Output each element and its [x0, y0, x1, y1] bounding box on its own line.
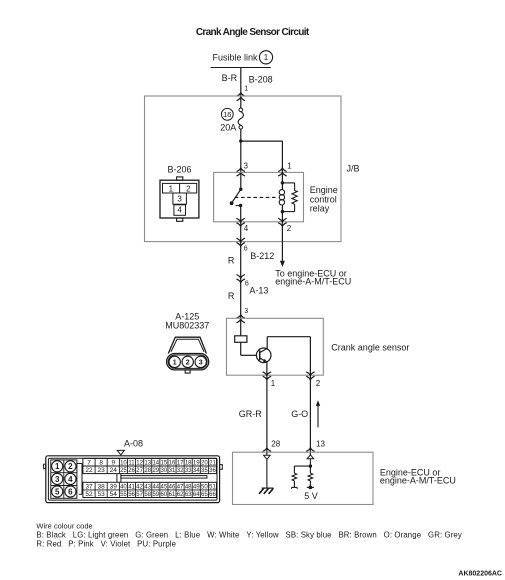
svg-text:34: 34	[193, 468, 200, 474]
svg-text:1: 1	[169, 184, 174, 193]
svg-text:16: 16	[223, 110, 231, 119]
svg-text:1: 1	[271, 379, 276, 388]
svg-text:A-08: A-08	[124, 438, 143, 448]
svg-text:7: 7	[87, 459, 91, 466]
svg-text:3: 3	[199, 360, 203, 367]
svg-text:26: 26	[128, 468, 135, 474]
svg-text:52: 52	[85, 491, 93, 498]
svg-text:56: 56	[128, 492, 135, 498]
svg-text:62: 62	[177, 492, 184, 498]
svg-text:3: 3	[244, 308, 248, 315]
svg-text:55: 55	[120, 492, 127, 498]
svg-text:3: 3	[177, 195, 182, 204]
svg-text:6: 6	[68, 487, 73, 496]
svg-text:53: 53	[98, 491, 106, 498]
svg-text:43: 43	[144, 484, 151, 490]
svg-text:5 V: 5 V	[304, 491, 318, 501]
svg-text:65: 65	[201, 492, 208, 498]
svg-text:24: 24	[110, 467, 118, 474]
svg-text:20: 20	[201, 460, 208, 466]
svg-text:Crank Angle Sensor Circuit: Crank Angle Sensor Circuit	[196, 27, 310, 38]
svg-text:2: 2	[186, 184, 191, 193]
svg-text:25: 25	[120, 468, 127, 474]
svg-text:4: 4	[177, 206, 182, 215]
svg-text:Fusible link: Fusible link	[213, 53, 259, 63]
svg-text:66: 66	[209, 492, 216, 498]
svg-text:2: 2	[68, 462, 73, 471]
svg-text:39: 39	[110, 483, 118, 490]
svg-text:23: 23	[98, 467, 106, 474]
svg-text:40: 40	[120, 484, 127, 490]
svg-text:13: 13	[144, 460, 151, 466]
svg-text:1: 1	[264, 53, 269, 62]
svg-text:6: 6	[244, 245, 248, 252]
svg-text:Wire colour code: Wire colour code	[36, 521, 92, 530]
svg-text:2: 2	[316, 379, 321, 388]
svg-text:G-O: G-O	[291, 409, 308, 419]
svg-text:5: 5	[55, 487, 60, 496]
svg-text:GR-R: GR-R	[239, 409, 262, 419]
svg-text:B-206: B-206	[167, 165, 191, 175]
svg-text:relay: relay	[310, 204, 330, 214]
svg-text:1: 1	[173, 360, 177, 367]
svg-text:R: Red P: Pink V: Violet: R: Red P: Pink V: Violet PU: Purple	[36, 539, 176, 548]
svg-text:15: 15	[161, 460, 168, 466]
svg-text:17: 17	[177, 460, 184, 466]
svg-text:B: Black LG: Light green G: B: Black LG: Light green G: Green L: Blu…	[36, 530, 462, 539]
svg-text:Crank angle sensor: Crank angle sensor	[331, 342, 409, 352]
svg-text:6: 6	[245, 280, 249, 287]
svg-text:4: 4	[244, 224, 249, 233]
svg-text:22: 22	[85, 467, 93, 474]
svg-text:3: 3	[55, 475, 60, 484]
svg-text:38: 38	[98, 483, 106, 490]
svg-text:41: 41	[128, 484, 135, 490]
svg-text:11: 11	[128, 460, 135, 466]
svg-text:12: 12	[136, 460, 143, 466]
svg-text:28: 28	[271, 439, 280, 448]
svg-text:A-13: A-13	[249, 286, 268, 296]
svg-text:MU802337: MU802337	[165, 321, 209, 331]
svg-text:47: 47	[177, 484, 184, 490]
svg-text:18: 18	[185, 460, 192, 466]
svg-text:AK802206AC: AK802206AC	[458, 571, 502, 578]
svg-text:31: 31	[169, 468, 176, 474]
svg-text:8: 8	[99, 459, 103, 466]
svg-text:42: 42	[136, 484, 143, 490]
svg-text:14: 14	[152, 460, 159, 466]
svg-text:44: 44	[152, 484, 159, 490]
svg-text:20A: 20A	[220, 122, 236, 132]
svg-text:50: 50	[201, 484, 208, 490]
svg-text:32: 32	[177, 468, 184, 474]
svg-text:28: 28	[144, 468, 151, 474]
svg-text:B-208: B-208	[249, 74, 273, 84]
svg-text:4: 4	[68, 475, 73, 484]
svg-text:57: 57	[136, 492, 143, 498]
svg-text:63: 63	[185, 492, 192, 498]
svg-text:engine-A-M/T-ECU: engine-A-M/T-ECU	[380, 476, 456, 486]
svg-text:10: 10	[120, 460, 127, 466]
svg-text:60: 60	[161, 492, 168, 498]
svg-text:13: 13	[316, 439, 325, 448]
svg-text:33: 33	[185, 468, 192, 474]
svg-text:27: 27	[136, 468, 143, 474]
svg-text:48: 48	[185, 484, 192, 490]
svg-text:engine-A-M/T-ECU: engine-A-M/T-ECU	[275, 277, 351, 287]
svg-text:49: 49	[193, 484, 200, 490]
svg-text:58: 58	[144, 492, 151, 498]
svg-text:35: 35	[201, 468, 208, 474]
svg-text:64: 64	[193, 492, 200, 498]
svg-text:1: 1	[287, 162, 292, 171]
svg-text:19: 19	[193, 460, 200, 466]
svg-text:59: 59	[152, 492, 159, 498]
svg-text:9: 9	[111, 459, 115, 466]
svg-text:B-R: B-R	[222, 73, 238, 83]
svg-text:37: 37	[85, 483, 93, 490]
svg-text:1: 1	[244, 86, 248, 93]
svg-text:29: 29	[152, 468, 159, 474]
svg-text:J/B: J/B	[347, 164, 360, 174]
svg-text:R: R	[228, 291, 235, 301]
svg-text:3: 3	[244, 162, 249, 171]
svg-text:54: 54	[110, 491, 118, 498]
svg-text:16: 16	[169, 460, 176, 466]
svg-text:1: 1	[55, 462, 60, 471]
svg-text:51: 51	[209, 484, 216, 490]
svg-text:30: 30	[161, 468, 168, 474]
svg-text:46: 46	[169, 484, 176, 490]
svg-text:R: R	[228, 256, 235, 266]
svg-text:36: 36	[209, 468, 216, 474]
svg-text:2: 2	[287, 224, 292, 233]
svg-text:B-212: B-212	[250, 251, 274, 261]
svg-text:21: 21	[209, 460, 216, 466]
svg-text:61: 61	[169, 492, 176, 498]
svg-text:45: 45	[161, 484, 168, 490]
svg-text:2: 2	[186, 360, 190, 367]
